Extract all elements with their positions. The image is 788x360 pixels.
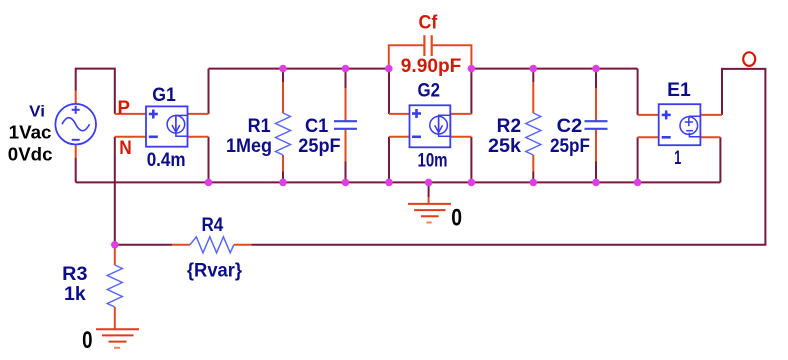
capacitor C2 plates — [585, 121, 608, 129]
wire C2 bottom pin — [595, 129, 597, 162]
wire E1 in- vertical — [637, 137, 639, 182]
svg-text:{Rvar}: {Rvar} — [187, 261, 243, 282]
wire G1 out+ vertical — [208, 69, 210, 114]
svg-text:1Vac: 1Vac — [9, 122, 52, 142]
svg-text:0Vdc: 0Vdc — [8, 145, 53, 165]
wire C1 top pin — [345, 88, 347, 121]
svg-text:10m: 10m — [418, 150, 448, 171]
svg-text:C1: C1 — [305, 116, 329, 137]
wire R4 right pin — [234, 244, 252, 246]
wire C2 top — [595, 69, 597, 88]
wire top bus left segment — [209, 68, 389, 70]
wire C1 top — [345, 69, 347, 88]
wire N stub to G1 - — [115, 136, 146, 138]
junction C1 bottom — [342, 179, 350, 187]
wire G2 in+ stub — [389, 113, 410, 115]
wire Vi bottom pin stub — [75, 145, 77, 159]
wire R1 bottom pin — [282, 155, 284, 172]
wire G2 out- stub — [450, 136, 471, 138]
junction R3 R4 node — [111, 241, 119, 249]
wire G1 out- stub — [188, 136, 209, 138]
wire E1 in+ stub — [638, 114, 659, 116]
wire P stub to G1 + — [115, 113, 146, 115]
resistor R2 zigzag — [526, 113, 541, 155]
wire Vi top to P corner — [76, 69, 115, 114]
svg-text:Vi: Vi — [29, 104, 45, 121]
svg-text:R4: R4 — [202, 215, 224, 236]
label node O output port — [743, 52, 755, 66]
wire G2 in+ vertical — [388, 69, 390, 114]
wire G2 out+ stub — [450, 113, 471, 115]
junction R1 top — [279, 65, 287, 73]
junction G2 out- bottom — [468, 179, 476, 187]
wire E1 out+ stub — [700, 114, 722, 116]
svg-text:25pF: 25pF — [298, 136, 340, 157]
VCCS G1 symbol — [146, 106, 188, 146]
svg-text:P: P — [118, 98, 131, 119]
wire ground stem red part under G2 — [428, 197, 430, 204]
svg-text:25pF: 25pF — [550, 136, 590, 157]
svg-text:1: 1 — [674, 148, 681, 169]
wire G1 out- vertical — [208, 137, 210, 183]
wire R1 top pin — [282, 82, 284, 113]
wire R4 left pin — [172, 244, 190, 246]
svg-text:1k: 1k — [64, 284, 86, 305]
wire G2 in- vertical — [388, 137, 390, 183]
wire G2 in- stub — [389, 136, 410, 138]
wire R2 top pin — [532, 82, 534, 113]
wire E1 in+ vertical — [637, 69, 639, 115]
wire E1 out- stub — [700, 136, 720, 138]
capacitor Cf plates — [424, 35, 431, 56]
resistor R3 zigzag — [107, 265, 122, 307]
svg-text:R1: R1 — [248, 116, 271, 137]
wire Vi bottom lead — [75, 158, 77, 182]
junction C1 top — [342, 65, 350, 73]
svg-text:G1: G1 — [152, 85, 176, 106]
wire C2 top pin — [595, 88, 597, 121]
junction C2 bottom — [592, 179, 600, 187]
junction G1 out- bottom — [205, 179, 213, 187]
junction Cf right / G2 out+ — [468, 65, 476, 73]
wire Cf left lead — [389, 45, 425, 68]
wire R1 top — [282, 69, 284, 82]
resistor R1 zigzag — [276, 113, 291, 155]
junction ground node — [425, 179, 433, 187]
junction R2 bottom — [530, 179, 538, 187]
wire G2 out- vertical — [470, 137, 472, 183]
svg-text:1Meg: 1Meg — [226, 136, 272, 157]
capacitor C1 plates — [334, 121, 357, 129]
junction E1 in- bottom — [634, 179, 642, 187]
wire E1 in- stub — [638, 136, 659, 138]
junction G2 in- bottom — [385, 179, 393, 187]
wire Vi top pin stub — [75, 91, 77, 104]
svg-text:C2: C2 — [557, 116, 583, 137]
wire R4 left from N node — [115, 244, 173, 246]
wire G2 out+ vertical — [470, 69, 472, 114]
wire E1 out+ loop to O and down right side — [252, 69, 766, 245]
wire C2 bottom — [595, 162, 597, 183]
svg-text:R2: R2 — [497, 116, 521, 137]
wire R2 bottom — [532, 172, 534, 183]
svg-text:Cf: Cf — [419, 12, 438, 33]
junction Cf left / G2 in+ — [385, 65, 393, 73]
svg-text:N: N — [119, 138, 132, 159]
wire G1 out+ stub — [188, 113, 209, 115]
wire R2 bottom pin — [532, 155, 534, 172]
wire R3 bottom pin — [114, 307, 116, 329]
resistor R4 zigzag — [190, 237, 234, 253]
wire top bus right segment — [471, 68, 637, 70]
svg-text:E1: E1 — [667, 80, 691, 101]
wire R3 top pin — [114, 249, 116, 266]
ground under R3 — [96, 329, 139, 348]
Cf feedback loop (red wires) — [389, 45, 472, 68]
svg-text:0.4m: 0.4m — [147, 150, 186, 171]
wire E1 out- vertical — [719, 137, 721, 182]
voltage source Vi symbol — [55, 104, 96, 145]
wire N vertical — [114, 137, 116, 245]
wire ground stem under G2 — [428, 182, 430, 197]
ground under G2 — [408, 204, 451, 223]
junction R1 bottom — [279, 179, 287, 187]
svg-text:G2: G2 — [418, 80, 441, 101]
svg-text:R3: R3 — [62, 264, 87, 285]
svg-text:9.90pF: 9.90pF — [401, 56, 462, 77]
wire R1 bottom — [282, 172, 284, 183]
wire R2 top — [532, 69, 534, 82]
junction R2 top — [530, 65, 538, 73]
wire bottom bus — [76, 181, 721, 183]
wire Cf right lead — [432, 45, 472, 68]
junction C2 top — [592, 65, 600, 73]
PIN STUBS (red) — [76, 82, 722, 329]
svg-text:25k: 25k — [488, 136, 521, 157]
svg-text:0: 0 — [451, 204, 462, 231]
VCVS E1 symbol — [659, 104, 701, 145]
wire C1 bottom — [345, 162, 347, 183]
wire C1 bottom pin — [345, 129, 347, 162]
svg-text:0: 0 — [82, 327, 92, 354]
VCCS G2 symbol — [410, 105, 451, 147]
